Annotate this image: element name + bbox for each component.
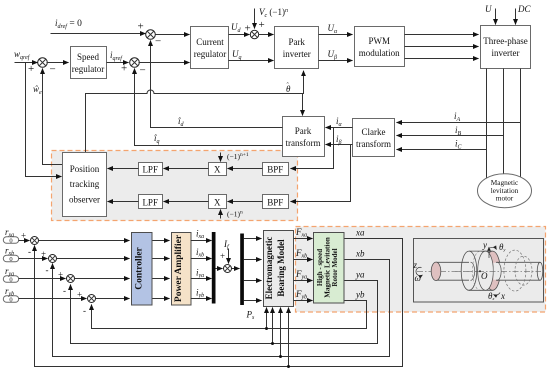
block: BPF upper xyxy=(263,163,289,176)
wire: xa output feedback xyxy=(35,228,403,367)
block: Electromagnetic Bearing Model xyxy=(264,231,294,307)
svg-text:−: − xyxy=(50,64,56,76)
block: Three-phase inverter xyxy=(481,26,531,69)
svg-text:-: - xyxy=(46,265,49,275)
summing junction: voltage injection xyxy=(250,30,258,38)
wire: U_q to Park inverter xyxy=(229,49,274,61)
svg-text:+: + xyxy=(28,63,34,75)
summing junction: ya xyxy=(58,270,75,296)
svg-text:inverter: inverter xyxy=(492,48,520,58)
svg-text:Power Amplifier: Power Amplifier xyxy=(174,234,184,302)
rotor shaft end arc inside cylinder xyxy=(471,262,475,280)
rotor pink disk front face cover xyxy=(478,251,494,290)
block: Power Amplifier xyxy=(172,233,192,306)
rotor cylinder top and bottom lines xyxy=(469,251,493,290)
svg-text:modulation: modulation xyxy=(359,48,400,58)
wire: xb position into bearing model xyxy=(279,308,282,359)
wire: yb output feedback xyxy=(92,290,367,329)
wire: pwm phase b xyxy=(405,46,479,48)
svg-text:+: + xyxy=(58,270,63,280)
summing junction: yb xyxy=(77,290,96,316)
wire: BPF2 to X2 xyxy=(228,201,263,203)
svg-text:PWM: PWM xyxy=(368,36,390,46)
bus bar 1 xyxy=(212,232,216,304)
svg-text:inverter: inverter xyxy=(283,49,311,59)
wire: U_d to compensation sum xyxy=(229,19,265,35)
svg-text:−: − xyxy=(140,65,146,77)
summing junction: xa xyxy=(21,231,39,257)
rotor axis centerline xyxy=(417,270,541,272)
rotor theta_y arrow xyxy=(490,247,497,249)
svg-text:+: + xyxy=(121,63,127,75)
svg-text:transform: transform xyxy=(356,139,391,149)
svg-text:X: X xyxy=(214,197,221,207)
dashed region: observer subsystem xyxy=(52,151,298,221)
wire: i_q_hat feedback xyxy=(135,69,283,146)
svg-text:z: z xyxy=(413,260,418,270)
svg-text:xb: xb xyxy=(355,249,365,259)
reference input r_xb xyxy=(3,246,18,263)
wire: pwm phase a xyxy=(405,34,479,36)
wire: U_alpha xyxy=(319,23,353,35)
block: multiplier X upper xyxy=(209,163,227,176)
svg-text:+: + xyxy=(21,231,26,241)
wire: i_yb to bus xyxy=(191,288,212,300)
wire: w_qref speed reference xyxy=(14,49,56,76)
svg-text:Park: Park xyxy=(288,37,305,47)
wire: i_C current xyxy=(397,139,487,151)
wire: theta_hat to Park blocks xyxy=(86,71,304,153)
wire: (-1)^n into X2 xyxy=(221,210,243,219)
rotor centerline overdraw xyxy=(455,270,541,272)
svg-text:ya: ya xyxy=(355,270,365,280)
svg-text:-: - xyxy=(28,247,31,257)
wire: F_ya xyxy=(294,269,313,281)
wire: r_xb to sum xyxy=(19,258,48,260)
wire: phase a to motor xyxy=(486,69,488,179)
wire: i_xa to bus xyxy=(191,229,212,241)
block: multiplier X lower xyxy=(209,195,227,209)
rotor illustration panel xyxy=(414,239,544,303)
summing junction: i_q error xyxy=(130,58,140,68)
svg-text:LPF: LPF xyxy=(142,197,158,207)
wire: i_dref reference xyxy=(51,18,146,34)
svg-text:Position: Position xyxy=(70,164,100,174)
svg-text:U: U xyxy=(485,4,492,14)
wire: pwm phase c xyxy=(405,58,479,60)
summing junction: speed error xyxy=(38,58,48,68)
wire: bias sum to bus 2 xyxy=(232,268,240,270)
reference input r_ya xyxy=(3,266,18,283)
block: High-speed Magnetic Levitation Rotor Model xyxy=(314,233,345,304)
dashed region: rotor model subsystem xyxy=(296,227,546,313)
wire: i_alpha branch to BPF1 xyxy=(291,128,334,169)
block: Speed regulator xyxy=(71,47,107,79)
svg-text:regulator: regulator xyxy=(194,49,226,59)
wire: w_qref branch to observer xyxy=(26,63,62,177)
svg-text:Controller: Controller xyxy=(135,246,145,289)
rotor shaft left part xyxy=(436,262,469,280)
wire: phase c to motor xyxy=(520,69,522,179)
wire: i_xb to bus xyxy=(191,247,212,259)
rotor left pink cap xyxy=(431,262,441,280)
block: Current regulator xyxy=(191,27,229,69)
rotor cylinder left face xyxy=(461,251,477,290)
svg-text:x: x xyxy=(500,291,505,301)
svg-text:Electromagnetic: Electromagnetic xyxy=(264,237,274,300)
block: Park transform xyxy=(283,117,325,157)
rotor theta_x arrow xyxy=(494,293,501,296)
svg-text:yb: yb xyxy=(355,290,365,300)
svg-text:Current: Current xyxy=(196,37,224,47)
svg-text:Speed: Speed xyxy=(77,52,99,62)
wire: speed sum to speed regulator xyxy=(47,62,69,64)
wire: r_yb to sum xyxy=(19,298,87,300)
wire: controller to amplifier ch4 xyxy=(153,298,170,300)
wire: controller to amplifier ch3 xyxy=(153,278,170,280)
wire: V_c injection xyxy=(255,7,289,29)
block: Position tracking observer xyxy=(63,153,107,217)
block: PWM modulation xyxy=(355,27,405,67)
svg-text:regulator: regulator xyxy=(72,64,104,74)
wire: (-1)^(n+1) into X1 xyxy=(221,152,249,162)
bus bar 2 xyxy=(240,234,244,306)
rotor shaft right part xyxy=(494,263,540,280)
wire: U_beta xyxy=(319,49,353,61)
svg-text:transform: transform xyxy=(286,138,321,148)
svg-text:tracking: tracking xyxy=(70,179,100,189)
wire: sum to Park inverter xyxy=(259,34,274,36)
rotor cylinder hidden mid ellipse xyxy=(472,251,488,290)
svg-text:Clarke: Clarke xyxy=(362,127,386,137)
block: Controller xyxy=(132,233,153,306)
wire: bus2 to bearing ch1 xyxy=(244,238,262,240)
svg-text:xa: xa xyxy=(355,228,365,238)
wire: ya position into bearing model xyxy=(271,308,274,346)
wire: U DC supply xyxy=(485,4,531,25)
wire: xb sum to controller xyxy=(57,258,130,260)
svg-text:−: − xyxy=(155,36,161,48)
wire: yb position into bearing model xyxy=(265,308,268,331)
wire: F_yb xyxy=(294,289,313,301)
motor: magnetic levitation motor xyxy=(478,174,532,208)
wire: i_alpha xyxy=(326,116,353,128)
svg-text:Bearing Model: Bearing Model xyxy=(276,239,286,297)
svg-text:+: + xyxy=(259,19,265,31)
svg-text:-: - xyxy=(63,286,66,296)
wire: id sum to current regulator xyxy=(156,34,190,36)
wire: controller to amplifier ch1 xyxy=(153,240,170,242)
block: LPF upper xyxy=(139,163,163,176)
wire: i_A current xyxy=(397,111,521,123)
wire: LPF2 to observer xyxy=(108,201,139,203)
block: BPF lower xyxy=(263,195,289,209)
wire: xb output feedback xyxy=(53,249,390,357)
rotor dashed disk xyxy=(504,250,526,291)
wire: iq sum to current regulator xyxy=(139,62,190,64)
rotor y axis arrow xyxy=(488,247,490,258)
svg-text:X: X xyxy=(214,165,221,175)
block: Clarke transform xyxy=(353,119,395,157)
rotor pink disk rim xyxy=(485,251,501,290)
wire: i_qref xyxy=(107,50,146,77)
svg-text:Park: Park xyxy=(295,126,312,136)
wire: i_ya to bus xyxy=(191,268,212,280)
wire: F_xa xyxy=(294,227,313,239)
wire: r_ya to sum xyxy=(19,278,66,280)
svg-text:BPF: BPF xyxy=(267,197,283,207)
wire: LPF1 to observer xyxy=(108,168,139,170)
svg-text:Three-phase: Three-phase xyxy=(483,36,527,46)
wire: bus2 to bearing ch2 xyxy=(244,259,262,261)
wire: BPF1 to X1 xyxy=(228,168,263,170)
summing junction: i_d error xyxy=(138,21,162,48)
summing junction: xb xyxy=(41,249,57,275)
wire: ya sum to controller xyxy=(75,278,130,280)
svg-text:motor: motor xyxy=(496,194,514,203)
svg-text:DC: DC xyxy=(517,4,531,14)
block: Park inverter xyxy=(275,27,319,69)
svg-text:O: O xyxy=(481,271,488,281)
wire: xa position into bearing model xyxy=(287,308,290,369)
wire: i_beta branch to BPF2 xyxy=(291,145,351,202)
wire: controller to amplifier ch2 xyxy=(153,258,170,260)
wire: X2 to LPF2 xyxy=(164,201,209,203)
svg-text:BPF: BPF xyxy=(267,165,283,175)
wire: I_f bias xyxy=(223,239,230,264)
wire: ya output feedback xyxy=(71,270,378,344)
wire: i_d_hat feedback xyxy=(151,41,283,129)
reference input r_xa xyxy=(3,227,18,244)
svg-text:+: + xyxy=(245,23,251,35)
wire: i_B current xyxy=(397,125,504,137)
reference input r_yb xyxy=(3,286,18,303)
wire: X1 to LPF1 xyxy=(164,168,209,170)
wire: bus2 to bearing ch3 xyxy=(244,280,262,282)
wire: F_xb xyxy=(294,248,313,260)
wire: phase b to motor xyxy=(503,69,505,175)
wire: i_beta xyxy=(326,134,353,146)
svg-text:+: + xyxy=(220,251,225,261)
wire: bus2 to bearing ch4 xyxy=(244,300,262,302)
svg-text:+: + xyxy=(138,21,144,33)
wire: bus to bias sum xyxy=(216,251,226,269)
svg-text:+: + xyxy=(41,249,46,259)
block: LPF lower xyxy=(139,195,163,209)
svg-text:Rotor Model: Rotor Model xyxy=(331,248,339,286)
svg-text:+: + xyxy=(77,290,82,300)
summing junction: bias current xyxy=(224,265,232,273)
wire: omega_hat to speed sum xyxy=(33,69,63,165)
svg-text:LPF: LPF xyxy=(142,165,158,175)
svg-text:y: y xyxy=(482,240,487,250)
wire: xa sum to controller xyxy=(39,240,130,242)
svg-text:-: - xyxy=(83,306,86,316)
wire: r_xa to sum xyxy=(19,240,30,242)
svg-text:observer: observer xyxy=(69,195,100,205)
wire: yb sum to controller xyxy=(96,298,130,300)
